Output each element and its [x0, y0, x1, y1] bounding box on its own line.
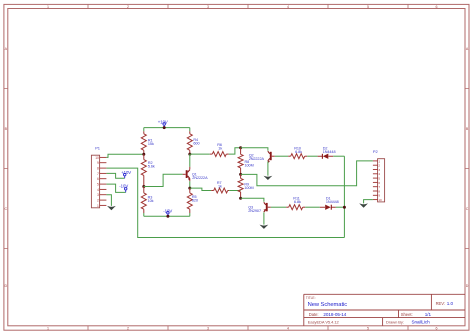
svg-text:D: D [466, 284, 469, 288]
wire P1 pin 5 to -10V flag [106, 184, 125, 192]
resistor R2 [143, 154, 145, 159]
diode D1 [305, 206, 320, 208]
net flag -10V (rail) [167, 214, 169, 217]
svg-text:New Schematic: New Schematic [308, 302, 348, 308]
net flag +10V (rail) [163, 125, 165, 128]
transistor Q1 [189, 154, 191, 167]
svg-text:1: 1 [97, 204, 99, 208]
svg-text:REV:: REV: [436, 301, 445, 306]
resistor R8 [240, 148, 242, 155]
wire Q1 collector to R6 [190, 153, 210, 155]
wire +10V rail [144, 127, 190, 129]
svg-text:6.8k: 6.8k [295, 150, 302, 154]
wire R2/R3 node to Q1 base [144, 174, 183, 186]
junction Q1E/R5/R7 [188, 187, 191, 190]
svg-text:2N2222A: 2N2222A [249, 157, 265, 161]
net flag +10V (P1) [124, 176, 126, 179]
junction R4/Q1C/R6 [188, 153, 191, 156]
ground Q3 [260, 225, 269, 229]
svg-text:10k: 10k [148, 199, 154, 203]
svg-text:EasyEDA V5.4.12: EasyEDA V5.4.12 [308, 320, 340, 325]
junction R1/R2/pin10 [142, 153, 145, 156]
wire Q2 emitter to ground [267, 162, 269, 176]
svg-text:Date:: Date: [309, 312, 319, 317]
svg-text:6: 6 [436, 5, 438, 9]
wire P1 pin 8 to bottom rail [106, 168, 344, 237]
svg-text:2: 2 [127, 5, 129, 9]
svg-text:P2: P2 [373, 149, 379, 154]
wire R8 node to P2 pin 1 [241, 161, 373, 186]
net flag -10V (P1) [125, 190, 127, 193]
diode D2 [307, 155, 317, 157]
wire node to Q3 collector [241, 198, 264, 202]
svg-text:+10V: +10V [121, 170, 131, 175]
junction +10V flag [163, 126, 166, 129]
svg-text:1.0: 1.0 [447, 301, 454, 306]
junction D1/vertical [343, 206, 346, 209]
svg-text:1: 1 [47, 326, 49, 330]
svg-text:1N4448: 1N4448 [323, 150, 336, 154]
svg-text:8: 8 [97, 167, 99, 171]
junction R6/R8/Q2C [239, 146, 242, 149]
svg-text:5.6k: 5.6k [148, 165, 155, 169]
svg-text:3: 3 [207, 326, 209, 330]
svg-text:SnailLich: SnailLich [412, 320, 431, 325]
ground P1 [107, 206, 116, 210]
junction -10V flag [166, 215, 169, 218]
wire Q3 base to R11 [271, 206, 286, 208]
svg-text:5: 5 [367, 5, 369, 9]
svg-text:5: 5 [367, 326, 369, 330]
ground P2 [359, 203, 368, 207]
svg-text:3: 3 [97, 193, 99, 197]
wire Q2 base to R10 [275, 155, 288, 157]
svg-text:1: 1 [47, 5, 49, 9]
wire R6 to Q2 collector node [229, 148, 241, 154]
svg-text:C: C [5, 207, 8, 211]
svg-text:5: 5 [97, 183, 99, 187]
junction R9/Q3 wire [239, 197, 242, 200]
svg-text:4: 4 [287, 326, 289, 330]
svg-text:2: 2 [97, 199, 99, 203]
resistor R11 [286, 206, 289, 208]
wire right vertical [343, 156, 345, 237]
svg-text:1N4448: 1N4448 [326, 200, 339, 204]
connector P1 [91, 155, 99, 208]
svg-text:-10V: -10V [119, 183, 128, 188]
svg-text:Drawn By:: Drawn By: [386, 320, 404, 325]
svg-text:6: 6 [97, 177, 99, 181]
svg-text:+10V: +10V [158, 119, 168, 124]
svg-text:620: 620 [192, 198, 198, 202]
svg-text:10: 10 [378, 198, 382, 202]
svg-text:4: 4 [287, 5, 289, 9]
junction R2/R3/base [142, 185, 145, 188]
svg-text:6: 6 [436, 326, 438, 330]
wire Q3 emitter to ground [263, 212, 265, 224]
svg-text:2018-05-14: 2018-05-14 [323, 312, 346, 317]
wire P1 pin 3 to ground [106, 195, 111, 206]
wire P2 pin 10 to ground [364, 200, 373, 204]
resistor R4 [189, 128, 191, 132]
transistor Q2 [270, 152, 272, 160]
wire node to Q2 collector [241, 148, 268, 151]
svg-text:10: 10 [95, 156, 99, 160]
resistor R7 [211, 190, 214, 192]
svg-text:C: C [466, 207, 469, 211]
svg-text:2N2907: 2N2907 [248, 209, 261, 213]
resistor R6 [210, 153, 213, 155]
wire Q1 emitter to R7 [190, 188, 211, 190]
svg-text:4: 4 [97, 188, 99, 192]
svg-text:2N2222A: 2N2222A [192, 176, 208, 180]
connector P2 [378, 159, 385, 202]
svg-text:600: 600 [193, 142, 199, 146]
junction R8/R9/wire [239, 173, 242, 176]
wire P1 pin 10 to R1/R2 node [106, 154, 143, 157]
resistor R5 [189, 188, 191, 193]
wire D1 to right vertical [336, 206, 345, 208]
svg-text:Sheet:: Sheet: [401, 312, 413, 317]
resistor R1 [143, 128, 145, 132]
wire D2 to right vertical [333, 155, 344, 157]
svg-text:TITLE:: TITLE: [306, 296, 316, 300]
svg-text:100M: 100M [245, 163, 254, 167]
svg-text:1/1: 1/1 [425, 312, 432, 317]
resistor R9 [240, 174, 242, 178]
ground Q2 [264, 176, 273, 180]
title block [304, 294, 465, 326]
svg-text:6.8k: 6.8k [294, 200, 301, 204]
svg-text:-10V: -10V [163, 208, 172, 213]
transistor Q3 [266, 203, 268, 211]
wire R7 to R9 [229, 190, 241, 192]
svg-text:D: D [5, 284, 8, 288]
svg-text:1k: 1k [218, 146, 222, 150]
svg-text:15k: 15k [148, 142, 154, 146]
svg-text:1k: 1k [218, 185, 222, 189]
wire Q1 emitter [189, 181, 191, 188]
svg-text:7: 7 [97, 172, 99, 176]
wire -10V rail [144, 215, 190, 217]
svg-text:100M: 100M [244, 186, 253, 190]
svg-text:P1: P1 [95, 145, 101, 150]
wire P1 pin 7 to +10V flag [106, 173, 124, 178]
resistor R10 [288, 155, 291, 157]
resistor R3 [143, 187, 145, 193]
svg-text:3: 3 [207, 5, 209, 9]
svg-text:9: 9 [97, 161, 99, 165]
svg-text:2: 2 [127, 326, 129, 330]
